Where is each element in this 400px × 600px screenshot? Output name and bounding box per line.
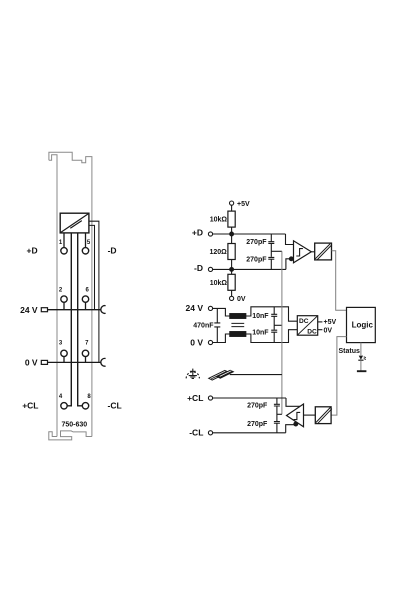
wire cap middle node to earth bus	[271, 250, 282, 252]
module housing outline bottom	[49, 431, 92, 440]
wire 0V to choke	[213, 334, 230, 343]
svg-text:+CL: +CL	[22, 401, 38, 411]
wire center left to pin 4	[67, 233, 71, 406]
wire opto1 to Logic	[332, 251, 347, 310]
capacitor 470nF	[214, 308, 220, 342]
capacitor 10nF top	[271, 307, 277, 330]
terminal +5V	[230, 201, 234, 205]
power jumper receptacle C 0V	[101, 358, 106, 366]
svg-text:-CL: -CL	[189, 428, 203, 438]
shield clamp symbol	[209, 370, 234, 380]
transformer diagonal 1	[61, 214, 89, 233]
choke core lines	[231, 323, 244, 326]
transformer diagonal 2	[70, 221, 82, 229]
svg-text:DC: DC	[307, 329, 317, 336]
svg-text:-D: -D	[108, 246, 117, 256]
wire choke to DCDC bottom	[246, 330, 297, 343]
wire 0V row	[48, 361, 102, 363]
wire pin7 stem	[85, 357, 87, 363]
wire Logic to opto2	[331, 337, 346, 416]
svg-text:270pF: 270pF	[247, 403, 268, 410]
svg-text:270pF: 270pF	[246, 239, 267, 246]
svg-text:0V: 0V	[237, 296, 246, 303]
wire pin1 stem	[63, 233, 65, 248]
inverting input dot	[289, 257, 293, 261]
resistor R3 10k body	[228, 274, 235, 290]
pin 2	[61, 296, 67, 302]
pin 1	[61, 248, 67, 254]
wire +5V stub	[231, 205, 233, 211]
pin 4	[61, 403, 67, 409]
wire +CL line	[213, 397, 286, 399]
svg-text:0V: 0V	[324, 327, 333, 334]
optocoupler U3 box	[315, 243, 332, 260]
junction dot -D	[230, 268, 234, 272]
svg-text:120Ω: 120Ω	[210, 249, 228, 256]
wire R1-R2	[231, 234, 233, 244]
wire cap middle to earth bus	[277, 413, 282, 415]
blade contact square 24V	[41, 308, 47, 312]
wire choke to DCDC top	[246, 307, 297, 321]
driver U4	[287, 404, 304, 427]
wire center right to pin 8	[78, 233, 83, 406]
wire stub right of box to 24V rail	[89, 225, 95, 309]
optocoupler U5 box	[315, 407, 331, 424]
wire -D line	[213, 268, 286, 270]
power jumper receptacle C 24V	[101, 306, 106, 314]
inverting dot driver	[294, 422, 298, 426]
wire +D to comparator top input	[286, 234, 294, 245]
wire -D to comparator lower input	[286, 259, 294, 270]
svg-text:-D: -D	[194, 263, 203, 273]
transformer U1 box	[60, 213, 89, 233]
wire -D to R3	[231, 269, 233, 274]
svg-text:24 V: 24 V	[186, 303, 204, 313]
wire R2 to -D	[231, 260, 233, 270]
svg-text:270pF: 270pF	[246, 257, 267, 264]
pin 6	[82, 296, 88, 302]
terminal 0V	[208, 340, 212, 344]
svg-text:+CL: +CL	[187, 393, 203, 403]
DC/DC converter box	[297, 316, 317, 336]
hysteresis glyph U2	[296, 249, 303, 256]
earth bus vertical	[281, 251, 283, 414]
wire pin2 stem	[63, 302, 65, 309]
svg-text:470nF: 470nF	[193, 322, 214, 329]
wire pin5 stem	[85, 233, 87, 248]
wire +D line	[213, 233, 286, 235]
blade contact square 0V	[41, 360, 47, 364]
svg-text:+5V: +5V	[324, 319, 337, 326]
resistor R2 120R body	[228, 244, 235, 260]
LED arrows	[364, 357, 366, 360]
wire -CL line	[213, 432, 286, 434]
svg-text:24 V: 24 V	[20, 305, 38, 315]
optocoupler U3 diagonals	[315, 244, 332, 261]
capacitor C3 270pF	[274, 398, 280, 421]
wire 10nF middle to earth bus	[274, 324, 282, 326]
wire pin3 stem	[63, 357, 65, 363]
junction dot +D	[230, 232, 234, 236]
svg-text:0 V: 0 V	[25, 357, 38, 367]
wire opto2 to driver	[304, 414, 316, 416]
terminal -CL	[208, 431, 212, 435]
comparator U2 receiver	[294, 241, 312, 263]
wire 0V output dash	[318, 329, 323, 331]
terminal 24V	[208, 306, 212, 310]
pin 5	[82, 248, 88, 254]
svg-text:10kΩ: 10kΩ	[210, 280, 228, 287]
LED D1	[359, 356, 363, 360]
svg-text:+D: +D	[26, 246, 37, 256]
terminal 0V top	[230, 296, 234, 300]
pin 8	[82, 403, 88, 409]
LED cathode bar	[358, 359, 363, 361]
wire R1 to +D	[231, 227, 233, 234]
wire shield line	[230, 374, 282, 376]
wire comparator to opto1	[311, 251, 314, 253]
DC/DC diagonal	[298, 316, 317, 335]
svg-text:Logic: Logic	[352, 321, 374, 330]
pin 3	[61, 350, 67, 356]
svg-text:10nF: 10nF	[252, 313, 269, 320]
optocoupler U5 diagonals	[316, 407, 332, 423]
svg-text:750-630: 750-630	[61, 422, 87, 429]
capacitor C4 270pF	[274, 422, 280, 433]
terminal +D	[208, 232, 212, 236]
capacitor 10nF bottom	[271, 330, 277, 342]
wire pin6 stem	[85, 302, 87, 309]
wire 24V to choke	[213, 308, 230, 316]
module housing outline top+right	[49, 152, 92, 436]
module housing outline left hook + left edge	[49, 155, 57, 437]
choke winding top	[230, 314, 246, 319]
wire +CL to driver upper edge	[286, 398, 300, 406]
capacitor C2 270pF	[268, 257, 274, 269]
pin 7	[82, 350, 88, 356]
wire LED to ground	[360, 360, 362, 370]
svg-text:+5V: +5V	[237, 201, 250, 208]
terminal -D	[208, 267, 212, 271]
functional earth symbol	[186, 369, 199, 379]
wire 24V row	[48, 309, 102, 311]
svg-text:10nF: 10nF	[252, 329, 269, 336]
wire R3 to 0V	[231, 290, 233, 296]
choke winding bottom	[230, 332, 246, 337]
svg-text:10kΩ: 10kΩ	[210, 217, 228, 224]
ground bar	[357, 370, 367, 372]
Status LED branch	[360, 343, 362, 356]
hysteresis glyph U4	[294, 412, 301, 419]
svg-text:Status: Status	[339, 348, 361, 355]
svg-text:DC: DC	[299, 318, 309, 325]
resistor R1 10k body	[228, 211, 235, 227]
Logic box	[347, 307, 376, 342]
wire -CL to driver lower edge	[286, 425, 296, 433]
wire +5V output dash	[318, 321, 323, 323]
svg-text:-CL: -CL	[108, 401, 122, 411]
capacitor C1 270pF	[268, 234, 274, 257]
terminal +CL	[208, 396, 212, 400]
wire stub right of box to 0V rail	[89, 221, 99, 362]
svg-text:270pF: 270pF	[247, 421, 268, 428]
svg-text:+D: +D	[192, 228, 203, 238]
svg-text:0 V: 0 V	[190, 337, 203, 347]
